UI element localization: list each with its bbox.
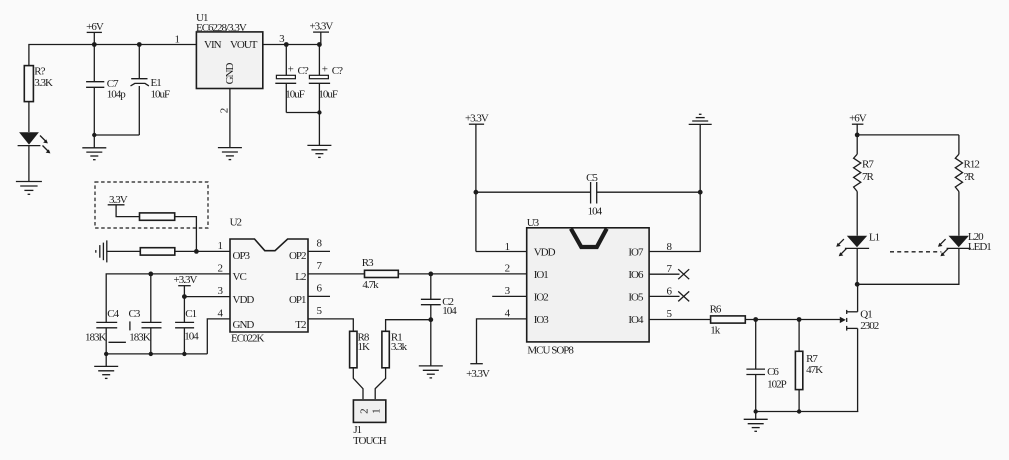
wire R3 to U3 IO1 bbox=[398, 273, 527, 275]
power +6V (right) bbox=[849, 113, 867, 135]
svg-text:Q1: Q1 bbox=[860, 308, 872, 320]
svg-text:R7: R7 bbox=[862, 159, 874, 171]
pin 8 stub bbox=[308, 250, 330, 252]
svg-text:+6V: +6V bbox=[86, 21, 104, 33]
node C5 right bbox=[698, 190, 703, 195]
wire T2 to R8 bbox=[308, 319, 353, 331]
svg-text:TOUCH: TOUCH bbox=[353, 435, 387, 447]
svg-text:R3: R3 bbox=[362, 257, 374, 269]
svg-text:IO7: IO7 bbox=[628, 246, 644, 258]
svg-text:+: + bbox=[322, 64, 328, 76]
svg-text:VC: VC bbox=[233, 271, 247, 283]
svg-text:+3.3V: +3.3V bbox=[309, 21, 333, 33]
svg-text:C6: C6 bbox=[767, 366, 779, 378]
node caps bottom bbox=[317, 110, 321, 114]
svg-text:10uF: 10uF bbox=[318, 88, 338, 100]
wire to ground bbox=[755, 412, 757, 420]
svg-text:T2: T2 bbox=[295, 319, 306, 331]
resistor R3 4.7k bbox=[362, 257, 399, 291]
pin 2 wire U1 GND bbox=[229, 89, 231, 148]
svg-text:2: 2 bbox=[358, 409, 370, 414]
svg-text:1: 1 bbox=[175, 34, 180, 46]
IC U3 MCU SOP8 bbox=[527, 217, 649, 356]
IC U2 EC022K bbox=[230, 216, 308, 344]
svg-text:?R: ?R bbox=[964, 171, 976, 183]
svg-text:1: 1 bbox=[370, 409, 382, 414]
wire VDD pin1 bbox=[476, 251, 527, 253]
resistor (to OP3) bbox=[140, 248, 175, 255]
resistor R7 47K bbox=[795, 320, 823, 412]
wire L20 to drain node bbox=[857, 248, 959, 284]
svg-text:VOUT: VOUT bbox=[230, 39, 258, 51]
wire bottom rail right bbox=[756, 411, 859, 413]
LED L1 bbox=[836, 232, 879, 257]
node C2 top bbox=[428, 272, 433, 277]
svg-text:1: 1 bbox=[217, 240, 222, 252]
wire U1 VOUT rail bbox=[263, 44, 321, 46]
svg-text:J1: J1 bbox=[353, 424, 361, 436]
ground (below C4) bbox=[94, 366, 118, 378]
ground (below LED) bbox=[16, 182, 42, 195]
capacitor C? 10uF (second) bbox=[309, 45, 343, 146]
resistor R7 7R (zigzag) bbox=[854, 154, 875, 191]
ground (below U1) bbox=[218, 148, 242, 160]
wire IO4 to R6 bbox=[649, 319, 711, 321]
wire resistor to pin1 net bbox=[175, 217, 197, 252]
svg-text:C?: C? bbox=[332, 65, 343, 77]
svg-text:102P: 102P bbox=[767, 378, 787, 390]
svg-text:10uF: 10uF bbox=[285, 88, 305, 100]
svg-text:IO3: IO3 bbox=[534, 314, 550, 326]
svg-text:IO4: IO4 bbox=[628, 314, 644, 326]
resistor R12 ?R (zigzag) bbox=[955, 154, 979, 191]
wire Q1 drain up bbox=[857, 284, 859, 312]
svg-text:C5: C5 bbox=[586, 172, 598, 184]
svg-text:OP1: OP1 bbox=[289, 294, 306, 306]
svg-text:3.3k: 3.3k bbox=[391, 341, 408, 353]
svg-text:U2: U2 bbox=[230, 216, 242, 228]
capacitor C2 104 bbox=[421, 274, 457, 366]
resistor R? 3.3K bbox=[24, 65, 53, 101]
resistor R1 3.3k bbox=[382, 331, 408, 368]
svg-text:+6V: +6V bbox=[849, 113, 867, 125]
svg-text:R?: R? bbox=[34, 65, 45, 77]
wire ground rail (C4/C3/C1) bbox=[106, 353, 207, 355]
node C1 top bbox=[182, 294, 187, 299]
svg-text:VDD: VDD bbox=[233, 294, 255, 306]
svg-text:183K: 183K bbox=[85, 331, 107, 343]
node +3.3V/C?b bbox=[317, 42, 322, 47]
wire R6 to Q1 gate bbox=[745, 319, 840, 321]
svg-text:C4: C4 bbox=[107, 308, 119, 320]
svg-text:104: 104 bbox=[442, 305, 457, 317]
svg-text:R12: R12 bbox=[964, 159, 980, 171]
svg-text:2: 2 bbox=[217, 262, 222, 274]
wire resistor to U2 OP3 bbox=[175, 250, 230, 252]
svg-text:IO1: IO1 bbox=[534, 269, 549, 281]
wire R7a to L1 bbox=[856, 192, 858, 236]
node junction E1 bbox=[137, 42, 142, 47]
ground (below C?b) bbox=[307, 145, 331, 157]
svg-text:L1: L1 bbox=[869, 232, 880, 244]
power +3.3V (below, IO3) bbox=[466, 364, 490, 380]
pin 3 stub U3 bbox=[492, 295, 527, 297]
ground (below C7) bbox=[82, 148, 106, 160]
ground (bottom right) bbox=[744, 419, 768, 431]
wire top rail left bbox=[29, 45, 197, 67]
node C6 top bbox=[753, 317, 758, 322]
ground (rotated, left of U2) bbox=[96, 240, 107, 262]
svg-text:10uF: 10uF bbox=[151, 88, 171, 100]
pin 7 stub + no-connect X bbox=[649, 269, 689, 279]
capacitor C6 102P bbox=[746, 320, 786, 412]
svg-text:+3.3V: +3.3V bbox=[465, 113, 489, 125]
capacitor E1 10uF (polarized) bbox=[131, 45, 171, 136]
svg-text:OP3: OP3 bbox=[233, 250, 251, 262]
svg-text:MCU SOP8: MCU SOP8 bbox=[527, 344, 574, 356]
svg-text:LED1: LED1 bbox=[968, 241, 991, 253]
wire VC net bbox=[106, 274, 230, 323]
svg-text:47K: 47K bbox=[806, 364, 823, 376]
node C3 top bbox=[148, 272, 153, 277]
node rail C6 bbox=[754, 409, 758, 413]
svg-text:3.3K: 3.3K bbox=[34, 77, 53, 89]
node pin1 junction bbox=[194, 249, 199, 254]
svg-text:IO2: IO2 bbox=[534, 291, 549, 303]
node C7 bottom bbox=[92, 133, 96, 137]
wire top rail right bbox=[857, 134, 959, 136]
LED L20 LED1 bbox=[938, 231, 991, 256]
wire rail to R12 bbox=[958, 135, 960, 154]
svg-text:EC022K: EC022K bbox=[231, 333, 265, 345]
wire R12 to L20 bbox=[958, 192, 960, 236]
svg-text:2302: 2302 bbox=[860, 320, 879, 332]
svg-text:+: + bbox=[288, 64, 294, 76]
pin 6 stub bbox=[308, 295, 330, 297]
capacitor C3 183K bbox=[129, 274, 162, 354]
power 3.3V (in dashed box) bbox=[108, 194, 140, 217]
node +6V junction bbox=[855, 133, 860, 138]
svg-text:C3: C3 bbox=[129, 308, 141, 320]
svg-text:104p: 104p bbox=[107, 88, 127, 100]
svg-text:1: 1 bbox=[505, 241, 510, 253]
node rail C4 bbox=[104, 352, 108, 356]
regulator U1 EC6228/3.3V bbox=[196, 12, 263, 89]
svg-text:VDD: VDD bbox=[534, 246, 556, 258]
wire L2 to R3 bbox=[308, 273, 365, 275]
power +3.3V (U3 VDD) bbox=[465, 113, 489, 252]
svg-text:+3.3V: +3.3V bbox=[174, 274, 198, 286]
transistor Q1 2302 bbox=[840, 308, 879, 332]
svg-text:1k: 1k bbox=[710, 324, 721, 336]
capacitor C? 10uF (first) bbox=[275, 45, 309, 113]
wire VDD net bbox=[184, 296, 230, 298]
node rail R7b bbox=[797, 409, 801, 413]
node junction +6V/C7 bbox=[92, 42, 97, 47]
power +3.3V (U1 output) bbox=[309, 21, 333, 45]
svg-text:7R: 7R bbox=[862, 171, 875, 183]
svg-text:R6: R6 bbox=[710, 304, 722, 316]
capacitor C5 104 bbox=[476, 172, 700, 218]
wire R to LED bbox=[28, 102, 30, 132]
node C5 left bbox=[474, 190, 479, 195]
wire ground to pin8 bbox=[649, 124, 700, 251]
svg-text:183K: 183K bbox=[129, 331, 151, 343]
svg-text:2: 2 bbox=[505, 262, 510, 274]
svg-text:OP2: OP2 bbox=[289, 250, 306, 262]
wire LED to ground bbox=[28, 146, 30, 182]
wire L1 to drain node bbox=[856, 248, 858, 284]
dashed link L1..L20 bbox=[890, 251, 941, 253]
svg-text:IO6: IO6 bbox=[628, 269, 644, 281]
capacitor C7 104p bbox=[86, 45, 126, 136]
capacitor C4 183K bbox=[85, 308, 126, 354]
resistor R6 1k bbox=[710, 304, 746, 337]
svg-text:C?: C? bbox=[298, 65, 309, 77]
svg-text:104: 104 bbox=[588, 206, 603, 218]
wire caps bottom bbox=[286, 112, 319, 114]
svg-text:1K: 1K bbox=[358, 341, 371, 353]
node rail C3 bbox=[149, 352, 153, 356]
wire R1 to J1 pin1 bbox=[375, 368, 385, 399]
ground (below C2) bbox=[419, 366, 443, 378]
wire GND pin U2 bbox=[207, 319, 230, 354]
resistor (in dashed box) bbox=[140, 213, 175, 220]
wire Q1 source down bbox=[857, 328, 859, 411]
ground (top right, inverted) bbox=[689, 114, 712, 124]
resistor R8 1K bbox=[350, 331, 370, 368]
svg-text:VIN: VIN bbox=[204, 39, 222, 51]
svg-text:2: 2 bbox=[219, 108, 231, 113]
svg-text:L2: L2 bbox=[295, 271, 306, 283]
svg-text:GND: GND bbox=[233, 319, 255, 331]
wire R1 top to C2 net bbox=[386, 320, 431, 332]
power +6V (left) bbox=[86, 21, 104, 45]
wire IO3 to +3.3V bbox=[477, 319, 528, 364]
node LED/drain bbox=[855, 282, 860, 287]
wire C7/E1 bottom bbox=[94, 134, 139, 136]
svg-text:E1: E1 bbox=[151, 77, 162, 89]
connector J1 TOUCH bbox=[353, 400, 387, 447]
dashed box bbox=[95, 182, 208, 228]
power +3.3V (VDD U2) bbox=[174, 274, 198, 296]
svg-text:C1: C1 bbox=[185, 308, 196, 320]
wire ground to resistor bbox=[107, 250, 141, 252]
capacitor C1 104 bbox=[175, 297, 199, 354]
wire +6V to R7a bbox=[856, 135, 858, 154]
node VOUT/C?a bbox=[284, 42, 289, 47]
node C2 bottom / R1 bbox=[428, 317, 433, 322]
svg-text:GND: GND bbox=[224, 63, 236, 85]
svg-text:+3.3V: +3.3V bbox=[466, 368, 490, 380]
node rail C1 bbox=[182, 352, 186, 356]
wire R8 to J1 pin2 bbox=[353, 368, 363, 399]
node R7b top bbox=[797, 317, 802, 322]
pin 6 stub + no-connect X bbox=[649, 291, 689, 301]
svg-text:IO5: IO5 bbox=[628, 291, 644, 303]
LED D? bbox=[18, 132, 51, 153]
svg-text:104: 104 bbox=[184, 331, 199, 343]
wire rail to ground bbox=[105, 354, 107, 367]
svg-text:4.7k: 4.7k bbox=[362, 279, 379, 291]
